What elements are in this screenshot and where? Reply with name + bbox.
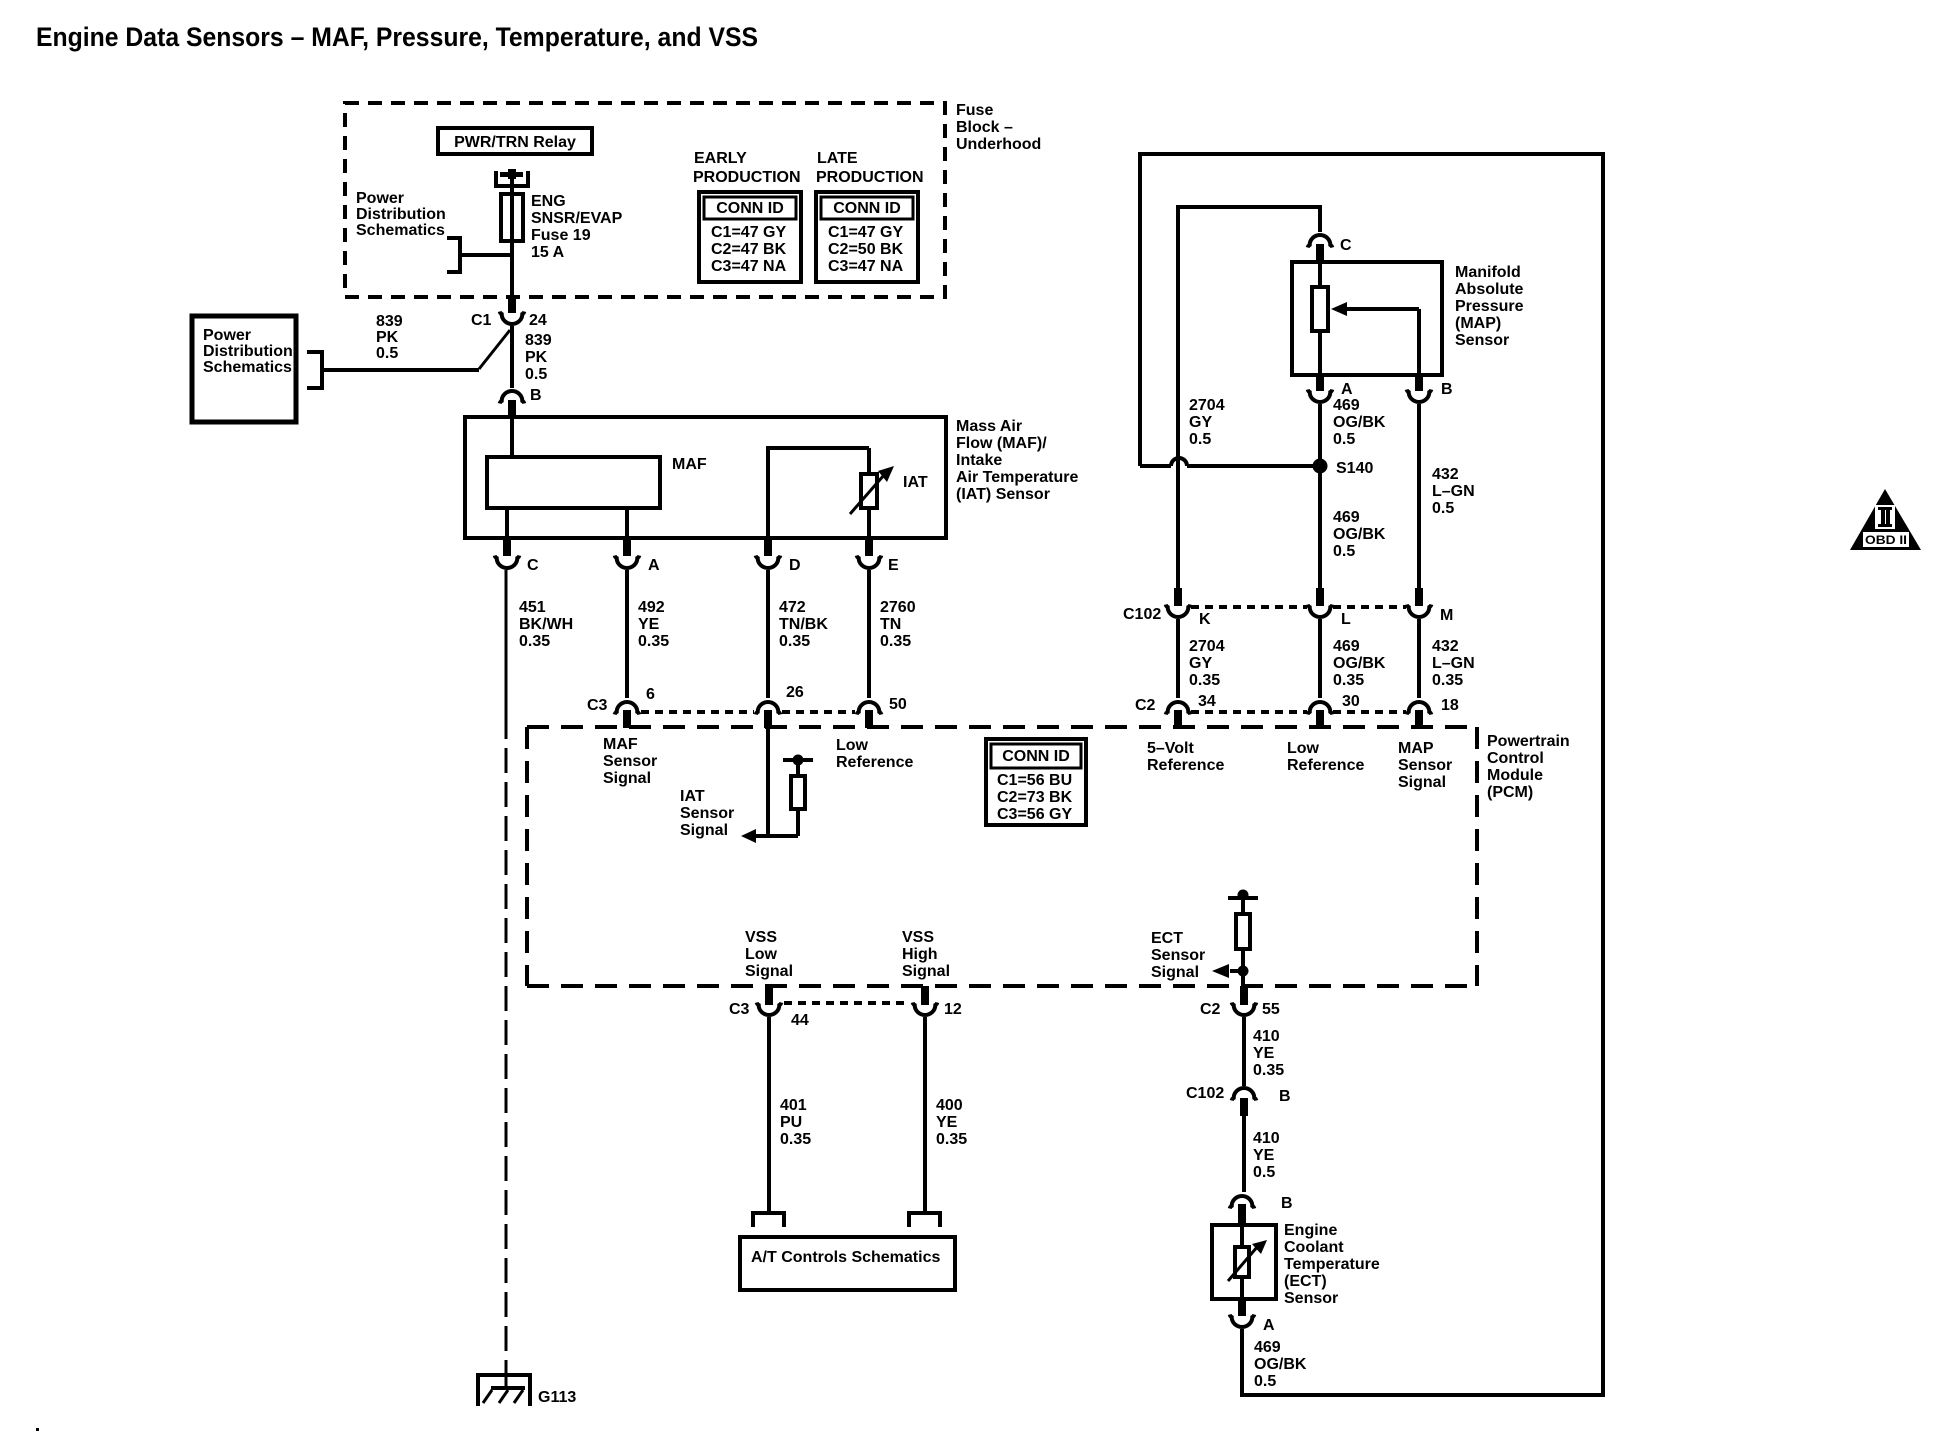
svg-text:PWR/TRN Relay: PWR/TRN Relay	[454, 134, 576, 151]
svg-text:YE: YE	[1253, 1147, 1275, 1164]
svg-text:(IAT) Sensor: (IAT) Sensor	[956, 486, 1050, 503]
svg-text:839: 839	[376, 313, 403, 330]
svg-text:0.35: 0.35	[1253, 1062, 1284, 1079]
svg-text:VSS: VSS	[745, 929, 777, 946]
svg-text:PRODUCTION: PRODUCTION	[816, 169, 924, 186]
MAF pin A	[615, 538, 660, 574]
connector row C3 pins 6 26 50	[587, 684, 907, 728]
svg-text:0.35: 0.35	[880, 633, 911, 650]
svg-text:A: A	[648, 557, 660, 574]
svg-text:0.35: 0.35	[519, 633, 550, 650]
PCM dashed box	[527, 727, 1477, 986]
svg-text:EARLY: EARLY	[694, 150, 747, 167]
PCM right labels	[1147, 740, 1224, 774]
fuse block underhood dashed box	[345, 103, 945, 297]
svg-text:Sensor: Sensor	[1151, 947, 1205, 964]
OBD II symbol	[1850, 489, 1921, 550]
svg-text:50: 50	[889, 696, 907, 713]
svg-text:Signal: Signal	[1151, 964, 1199, 981]
connector row C3 pins 44 12 below PCM	[729, 986, 962, 1029]
svg-text:Distribution: Distribution	[203, 343, 293, 360]
MAF element	[487, 457, 660, 508]
svg-text:IAT: IAT	[680, 788, 705, 805]
svg-text:Low: Low	[745, 946, 778, 963]
svg-text:Temperature: Temperature	[1284, 1256, 1380, 1273]
PCM CONN ID table	[986, 739, 1086, 825]
wire 2704 GY labels	[1189, 397, 1225, 448]
big loop 469 OG/BK wire	[1140, 154, 1603, 1395]
svg-text:0.5: 0.5	[1189, 431, 1211, 448]
svg-text:C3: C3	[587, 697, 608, 714]
A/T controls schematics box	[740, 1237, 955, 1290]
svg-text:(ECT): (ECT)	[1284, 1273, 1327, 1290]
svg-text:YE: YE	[936, 1114, 958, 1131]
svg-text:Engine: Engine	[1284, 1222, 1337, 1239]
svg-text:Reference: Reference	[836, 754, 913, 771]
svg-text:OG/BK: OG/BK	[1254, 1356, 1307, 1373]
svg-text:C2=73 BK: C2=73 BK	[997, 789, 1073, 806]
2704 GY top run	[1176, 205, 1180, 588]
svg-text:Fuse: Fuse	[956, 102, 993, 119]
svg-text:0.35: 0.35	[780, 1131, 811, 1148]
svg-text:Sensor: Sensor	[680, 805, 734, 822]
svg-text:26: 26	[786, 684, 804, 701]
svg-text:B: B	[1441, 381, 1453, 398]
svg-text:Flow (MAF)/: Flow (MAF)/	[956, 435, 1047, 452]
svg-text:30: 30	[1342, 693, 1360, 710]
PCM pin labels row 1	[603, 736, 657, 787]
svg-text:2704: 2704	[1189, 638, 1225, 655]
IAT sensor signal internal circuit	[680, 728, 813, 843]
ECT sensor box	[1212, 1225, 1276, 1299]
terminal staple VSS high into A/T box	[909, 1213, 940, 1227]
wire 410 YE 0.35	[1242, 1017, 1246, 1086]
wire 469 OG/BK S140 to C102 L	[1318, 472, 1322, 588]
svg-text:TN/BK: TN/BK	[779, 616, 828, 633]
svg-text:C1=47 GY: C1=47 GY	[828, 224, 903, 241]
svg-text:Fuse 19: Fuse 19	[531, 227, 591, 244]
relay contact symbol	[496, 169, 528, 186]
wire 451 BK/WH dashed to ground	[505, 714, 508, 1374]
ECT thermistor	[1228, 1225, 1267, 1299]
svg-text:YE: YE	[638, 616, 660, 633]
svg-text:OG/BK: OG/BK	[1333, 526, 1386, 543]
svg-text:469: 469	[1333, 509, 1360, 526]
wire 410 YE 0.5	[1242, 1116, 1246, 1192]
svg-text:Low: Low	[836, 737, 869, 754]
svg-text:0.35: 0.35	[1189, 672, 1220, 689]
svg-text:432: 432	[1432, 638, 1459, 655]
svg-text:Power: Power	[356, 190, 404, 207]
svg-text:VSS: VSS	[902, 929, 934, 946]
wire 401 PU	[767, 1017, 771, 1214]
svg-text:Signal: Signal	[603, 770, 651, 787]
svg-text:Sensor: Sensor	[1284, 1290, 1338, 1307]
svg-text:0.5: 0.5	[1432, 500, 1454, 517]
svg-text:451: 451	[519, 599, 546, 616]
svg-text:Low: Low	[1287, 740, 1320, 757]
wire 472 TN/BK	[766, 570, 770, 698]
svg-text:(MAP): (MAP)	[1455, 315, 1501, 332]
IAT thermistor	[850, 466, 928, 514]
MAP pin B	[1407, 375, 1453, 402]
svg-text:L: L	[1341, 611, 1351, 628]
svg-text:A: A	[1263, 1317, 1275, 1334]
svg-text:PK: PK	[376, 329, 399, 346]
svg-text:410: 410	[1253, 1130, 1280, 1147]
svg-text:YE: YE	[1253, 1045, 1275, 1062]
svg-text:M: M	[1440, 607, 1453, 624]
connector row C2 pins 34 30 18	[1135, 693, 1459, 728]
svg-text:5–Volt: 5–Volt	[1147, 740, 1195, 757]
svg-text:LATE: LATE	[817, 150, 858, 167]
page dot	[36, 1428, 39, 1431]
svg-text:Sensor: Sensor	[603, 753, 657, 770]
svg-text:Absolute: Absolute	[1455, 281, 1524, 298]
svg-text:469: 469	[1333, 638, 1360, 655]
svg-text:C: C	[1340, 237, 1352, 254]
svg-text:Reference: Reference	[1147, 757, 1224, 774]
MAF/IAT sensor box	[465, 417, 946, 538]
svg-text:GY: GY	[1189, 414, 1212, 431]
power distribution schematics box (left)	[192, 316, 296, 422]
svg-text:Signal: Signal	[1398, 774, 1446, 791]
svg-text:B: B	[1281, 1195, 1293, 1212]
svg-text:18: 18	[1441, 697, 1459, 714]
svg-text:High: High	[902, 946, 938, 963]
svg-text:Sensor: Sensor	[1455, 332, 1509, 349]
svg-text:0.5: 0.5	[1333, 431, 1355, 448]
svg-text:Control: Control	[1487, 750, 1544, 767]
label Fuse Block Underhood	[956, 102, 1041, 153]
wire 432 L-GN from MAP B	[1417, 404, 1421, 588]
label 839 PK 0.5 left	[376, 313, 403, 362]
MAF pin D	[756, 538, 801, 574]
svg-text:OG/BK: OG/BK	[1333, 414, 1386, 431]
svg-text:400: 400	[936, 1097, 963, 1114]
connector C1 pin 24	[471, 297, 547, 329]
wire 2760 TN	[867, 570, 871, 698]
svg-text:34: 34	[1198, 693, 1216, 710]
wire into MAF element	[510, 417, 514, 457]
wire 839 PK 0.5	[510, 326, 514, 388]
svg-text:C2: C2	[1135, 697, 1156, 714]
EARLY production conn id table	[693, 150, 801, 282]
ground G113	[478, 1374, 576, 1406]
svg-text:C2=50 BK: C2=50 BK	[828, 241, 904, 258]
svg-text:C2: C2	[1200, 1001, 1221, 1018]
svg-text:2704: 2704	[1189, 397, 1225, 414]
svg-text:A: A	[1341, 381, 1353, 398]
svg-text:12: 12	[944, 1001, 962, 1018]
svg-text:C102: C102	[1123, 606, 1161, 623]
svg-text:C3=47 NA: C3=47 NA	[711, 258, 787, 275]
wire 469 OG/BK to loop	[1240, 1329, 1244, 1397]
svg-text:ECT: ECT	[1151, 930, 1183, 947]
svg-text:0.35: 0.35	[779, 633, 810, 650]
svg-text:Coolant: Coolant	[1284, 1239, 1344, 1256]
wire fuse column	[510, 171, 514, 298]
wire 469 OG/BK A to S140	[1318, 404, 1322, 460]
svg-text:Schematics: Schematics	[356, 222, 445, 239]
svg-text:C: C	[527, 557, 539, 574]
svg-text:Power: Power	[203, 327, 251, 344]
svg-text:0.35: 0.35	[1333, 672, 1364, 689]
svg-text:Sensor: Sensor	[1398, 757, 1452, 774]
svg-text:C2=47 BK: C2=47 BK	[711, 241, 787, 258]
connector C2 pin 55 ECT	[1200, 986, 1280, 1018]
svg-text:PRODUCTION: PRODUCTION	[693, 169, 801, 186]
ECT pin A	[1230, 1299, 1275, 1334]
svg-text:MAF: MAF	[672, 456, 707, 473]
svg-text:0.35: 0.35	[936, 1131, 967, 1148]
svg-text:839: 839	[525, 332, 552, 349]
svg-text:ENG: ENG	[531, 193, 566, 210]
svg-text:GY: GY	[1189, 655, 1212, 672]
svg-text:492: 492	[638, 599, 665, 616]
svg-text:SNSR/EVAP: SNSR/EVAP	[531, 210, 623, 227]
ECT sensor signal internal circuit	[1151, 890, 1258, 987]
svg-text:0.5: 0.5	[1253, 1164, 1275, 1181]
svg-text:S140: S140	[1336, 460, 1373, 477]
svg-text:C3=56 GY: C3=56 GY	[997, 806, 1072, 823]
svg-text:CONN ID: CONN ID	[833, 200, 901, 217]
wires C102 to C2	[1176, 619, 1180, 698]
svg-text:MAP: MAP	[1398, 740, 1434, 757]
svg-text:C1=47 GY: C1=47 GY	[711, 224, 786, 241]
svg-text:C1=56 BU: C1=56 BU	[997, 772, 1072, 789]
svg-text:55: 55	[1262, 1001, 1280, 1018]
svg-text:L–GN: L–GN	[1432, 655, 1475, 672]
svg-text:Schematics: Schematics	[203, 359, 292, 376]
wire 451 BK/WH solid part	[505, 570, 508, 714]
wire 492 YE	[625, 570, 629, 698]
svg-text:D: D	[789, 557, 801, 574]
svg-text:K: K	[1199, 611, 1211, 628]
MAF pin E	[857, 538, 899, 574]
MAP potentiometer	[1312, 262, 1419, 375]
wire MAF to pin A	[625, 508, 629, 538]
relay box PWR/TRN Relay	[438, 128, 592, 154]
wire MAF to pin C	[505, 508, 509, 538]
svg-text:0.35: 0.35	[1432, 672, 1463, 689]
svg-text:401: 401	[780, 1097, 807, 1114]
svg-text:C1: C1	[471, 312, 492, 329]
svg-text:B: B	[1279, 1088, 1291, 1105]
svg-text:Engine Data Sensors – MAF, Pre: Engine Data Sensors – MAF, Pressure, Tem…	[36, 22, 758, 52]
power distribution bracket (inside fuse block)	[356, 190, 512, 272]
svg-text:Signal: Signal	[680, 822, 728, 839]
svg-text:Intake: Intake	[956, 452, 1002, 469]
svg-text:A/T Controls Schematics: A/T Controls Schematics	[751, 1249, 940, 1266]
svg-text:Module: Module	[1487, 767, 1543, 784]
svg-text:24: 24	[529, 312, 547, 329]
svg-text:0.5: 0.5	[1333, 543, 1355, 560]
svg-text:PU: PU	[780, 1114, 802, 1131]
splice S140	[1313, 459, 1328, 474]
svg-text:PK: PK	[525, 349, 548, 366]
svg-text:15 A: 15 A	[531, 244, 565, 261]
svg-text:G113: G113	[538, 1389, 576, 1406]
horizontal to S140 with hop	[1140, 458, 1321, 466]
svg-text:C102: C102	[1186, 1085, 1224, 1102]
svg-text:E: E	[888, 557, 899, 574]
connector row C102 pins K L M	[1123, 588, 1453, 628]
svg-text:L–GN: L–GN	[1432, 483, 1475, 500]
svg-text:0.35: 0.35	[638, 633, 669, 650]
svg-text:0.5: 0.5	[376, 345, 398, 362]
svg-text:0.5: 0.5	[1254, 1373, 1276, 1390]
svg-text:MAF: MAF	[603, 736, 638, 753]
svg-text:Manifold: Manifold	[1455, 264, 1521, 281]
connector B into ECT sensor	[1230, 1195, 1293, 1225]
svg-text:469: 469	[1333, 397, 1360, 414]
svg-text:469: 469	[1254, 1339, 1281, 1356]
terminal staple VSS low into A/T box	[753, 1213, 784, 1227]
LATE production conn id table	[816, 150, 924, 282]
svg-text:OG/BK: OG/BK	[1333, 655, 1386, 672]
svg-text:44: 44	[791, 1012, 809, 1029]
MAP connector C	[1308, 235, 1352, 262]
svg-text:472: 472	[779, 599, 806, 616]
wire 839 PK diagonal	[479, 330, 510, 369]
svg-text:BK/WH: BK/WH	[519, 616, 573, 633]
svg-text:Signal: Signal	[902, 963, 950, 980]
svg-text:Air Temperature: Air Temperature	[956, 469, 1079, 486]
svg-text:Powertrain: Powertrain	[1487, 733, 1570, 750]
svg-text:OBD II: OBD II	[1865, 533, 1907, 547]
svg-text:IAT: IAT	[903, 474, 928, 491]
svg-text:432: 432	[1432, 466, 1459, 483]
svg-text:Underhood: Underhood	[956, 136, 1041, 153]
VSS labels	[745, 929, 793, 980]
svg-text:Distribution: Distribution	[356, 206, 446, 223]
svg-text:Mass Air: Mass Air	[956, 418, 1022, 435]
svg-text:Pressure: Pressure	[1455, 298, 1524, 315]
svg-text:(PCM): (PCM)	[1487, 784, 1533, 801]
MAP sensor box	[1292, 262, 1442, 375]
svg-text:C3: C3	[729, 1001, 750, 1018]
svg-text:410: 410	[1253, 1028, 1280, 1045]
bracket from power distribution box	[307, 352, 479, 388]
svg-text:Block –: Block –	[956, 119, 1013, 136]
wire 400 YE	[923, 1017, 927, 1213]
svg-text:2760: 2760	[880, 599, 916, 616]
MAF pin C	[495, 538, 539, 574]
connector C102 pin B ECT	[1186, 1085, 1291, 1116]
svg-text:Signal: Signal	[745, 963, 793, 980]
MAP pin A	[1308, 375, 1353, 402]
svg-text:6: 6	[646, 686, 655, 703]
svg-text:B: B	[530, 387, 542, 404]
IAT thermistor wiring	[766, 448, 869, 538]
fuse ENG SNSR/EVAP Fuse 19	[501, 194, 523, 241]
svg-text:C3=47 NA: C3=47 NA	[828, 258, 904, 275]
svg-text:CONN ID: CONN ID	[1002, 748, 1070, 765]
svg-text:TN: TN	[880, 616, 901, 633]
connector B into MAF	[500, 387, 542, 417]
svg-text:0.5: 0.5	[525, 366, 547, 383]
svg-text:Reference: Reference	[1287, 757, 1364, 774]
svg-text:CONN ID: CONN ID	[716, 200, 784, 217]
